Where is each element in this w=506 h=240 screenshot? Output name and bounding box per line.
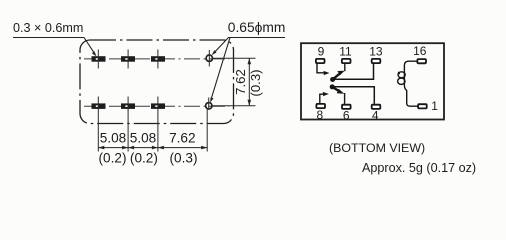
pin B2 (rect pin, bottom row 2) <box>121 103 135 109</box>
pin B3 (rect pin, bottom row 3) <box>151 103 165 109</box>
junction node 2 <box>330 84 335 89</box>
pin 8 pad <box>316 104 325 108</box>
svg-text:6: 6 <box>343 109 350 123</box>
pin A2 (rect pin, top row 2) <box>121 50 135 69</box>
pin B4 (round pin, bottom row) <box>206 98 212 110</box>
wire node2 to pin4 <box>332 87 374 104</box>
NO contact arrow 1 <box>324 71 330 75</box>
wire node1 to pin13 <box>333 64 374 79</box>
pin 13 pad <box>372 59 381 63</box>
pin 9 pad <box>316 59 325 63</box>
pin A4 (round pin, top row) <box>206 50 212 67</box>
svg-text:1: 1 <box>431 99 438 113</box>
svg-text:11: 11 <box>339 45 352 59</box>
movable arm 1 <box>333 74 340 80</box>
svg-text:0.3 × 0.6mm: 0.3 × 0.6mm <box>13 21 83 35</box>
dimension line 5.08 (first) <box>98 146 128 150</box>
arm 1 arrowhead <box>337 71 344 75</box>
coil L1 <box>398 61 418 106</box>
svg-text:4: 4 <box>372 109 379 123</box>
pin 1 pad <box>418 104 427 108</box>
pin 6 pad <box>342 105 351 109</box>
svg-text:7.62: 7.62 <box>233 69 248 95</box>
leader line to top-left pin <box>13 38 97 57</box>
extension lines for bottom dimensions <box>98 97 207 152</box>
dimension line 7.62 (horizontal) <box>158 146 207 150</box>
pin 11 pad <box>342 59 351 63</box>
wire pin11 down <box>344 64 346 71</box>
svg-text:8: 8 <box>317 108 324 122</box>
dimension line 5.08 (second) <box>128 146 158 150</box>
svg-text:9: 9 <box>318 45 325 59</box>
top pin row centerline <box>84 58 229 60</box>
movable arm 2 <box>332 87 339 92</box>
svg-text:7.62: 7.62 <box>169 131 195 146</box>
label hole-size 0.65 phi mm <box>228 20 286 35</box>
pin 4 pad <box>372 105 381 109</box>
schematic box <box>301 43 444 119</box>
svg-text:13: 13 <box>369 45 383 59</box>
arm 2 arrowhead <box>337 89 345 94</box>
svg-text:(BOTTOM VIEW): (BOTTOM VIEW) <box>329 141 425 155</box>
pin A1 (rect pin, top row 1) <box>92 50 106 69</box>
svg-text:(0.2): (0.2) <box>99 151 127 166</box>
extension lines for vertical dimension <box>213 58 256 106</box>
pin B1 (rect pin, bottom row 1) <box>92 103 106 109</box>
label pin-size 0.3 x 0.6mm <box>13 21 83 35</box>
svg-text:(0.3): (0.3) <box>248 69 263 96</box>
wire arm2 to pin6 <box>344 93 346 104</box>
svg-text:(0.2): (0.2) <box>130 151 158 166</box>
wire pin9 to NO contact 1 <box>317 64 324 73</box>
svg-text:Approx. 5g (0.17 oz): Approx. 5g (0.17 oz) <box>362 161 476 175</box>
pin A3 (rect pin, top row 3) <box>151 50 165 69</box>
svg-text:5.08: 5.08 <box>130 131 156 146</box>
svg-text:0.65ϕmm: 0.65ϕmm <box>228 20 286 35</box>
relay package outline (phantom line rounded rect) <box>80 40 234 124</box>
svg-text:16: 16 <box>413 44 427 58</box>
bottom pin row centerline <box>84 105 229 107</box>
svg-text:(0.3): (0.3) <box>170 151 198 166</box>
dimension line 7.62 (vertical) <box>248 58 252 106</box>
svg-text:5.08: 5.08 <box>100 131 126 146</box>
NO contact arrow 2 <box>323 92 329 96</box>
pin 16 pad <box>417 59 426 63</box>
wire pin8 to NO contact 2 <box>320 94 325 103</box>
leader lines to circular pins <box>210 38 285 103</box>
junction node 1 <box>330 77 335 82</box>
